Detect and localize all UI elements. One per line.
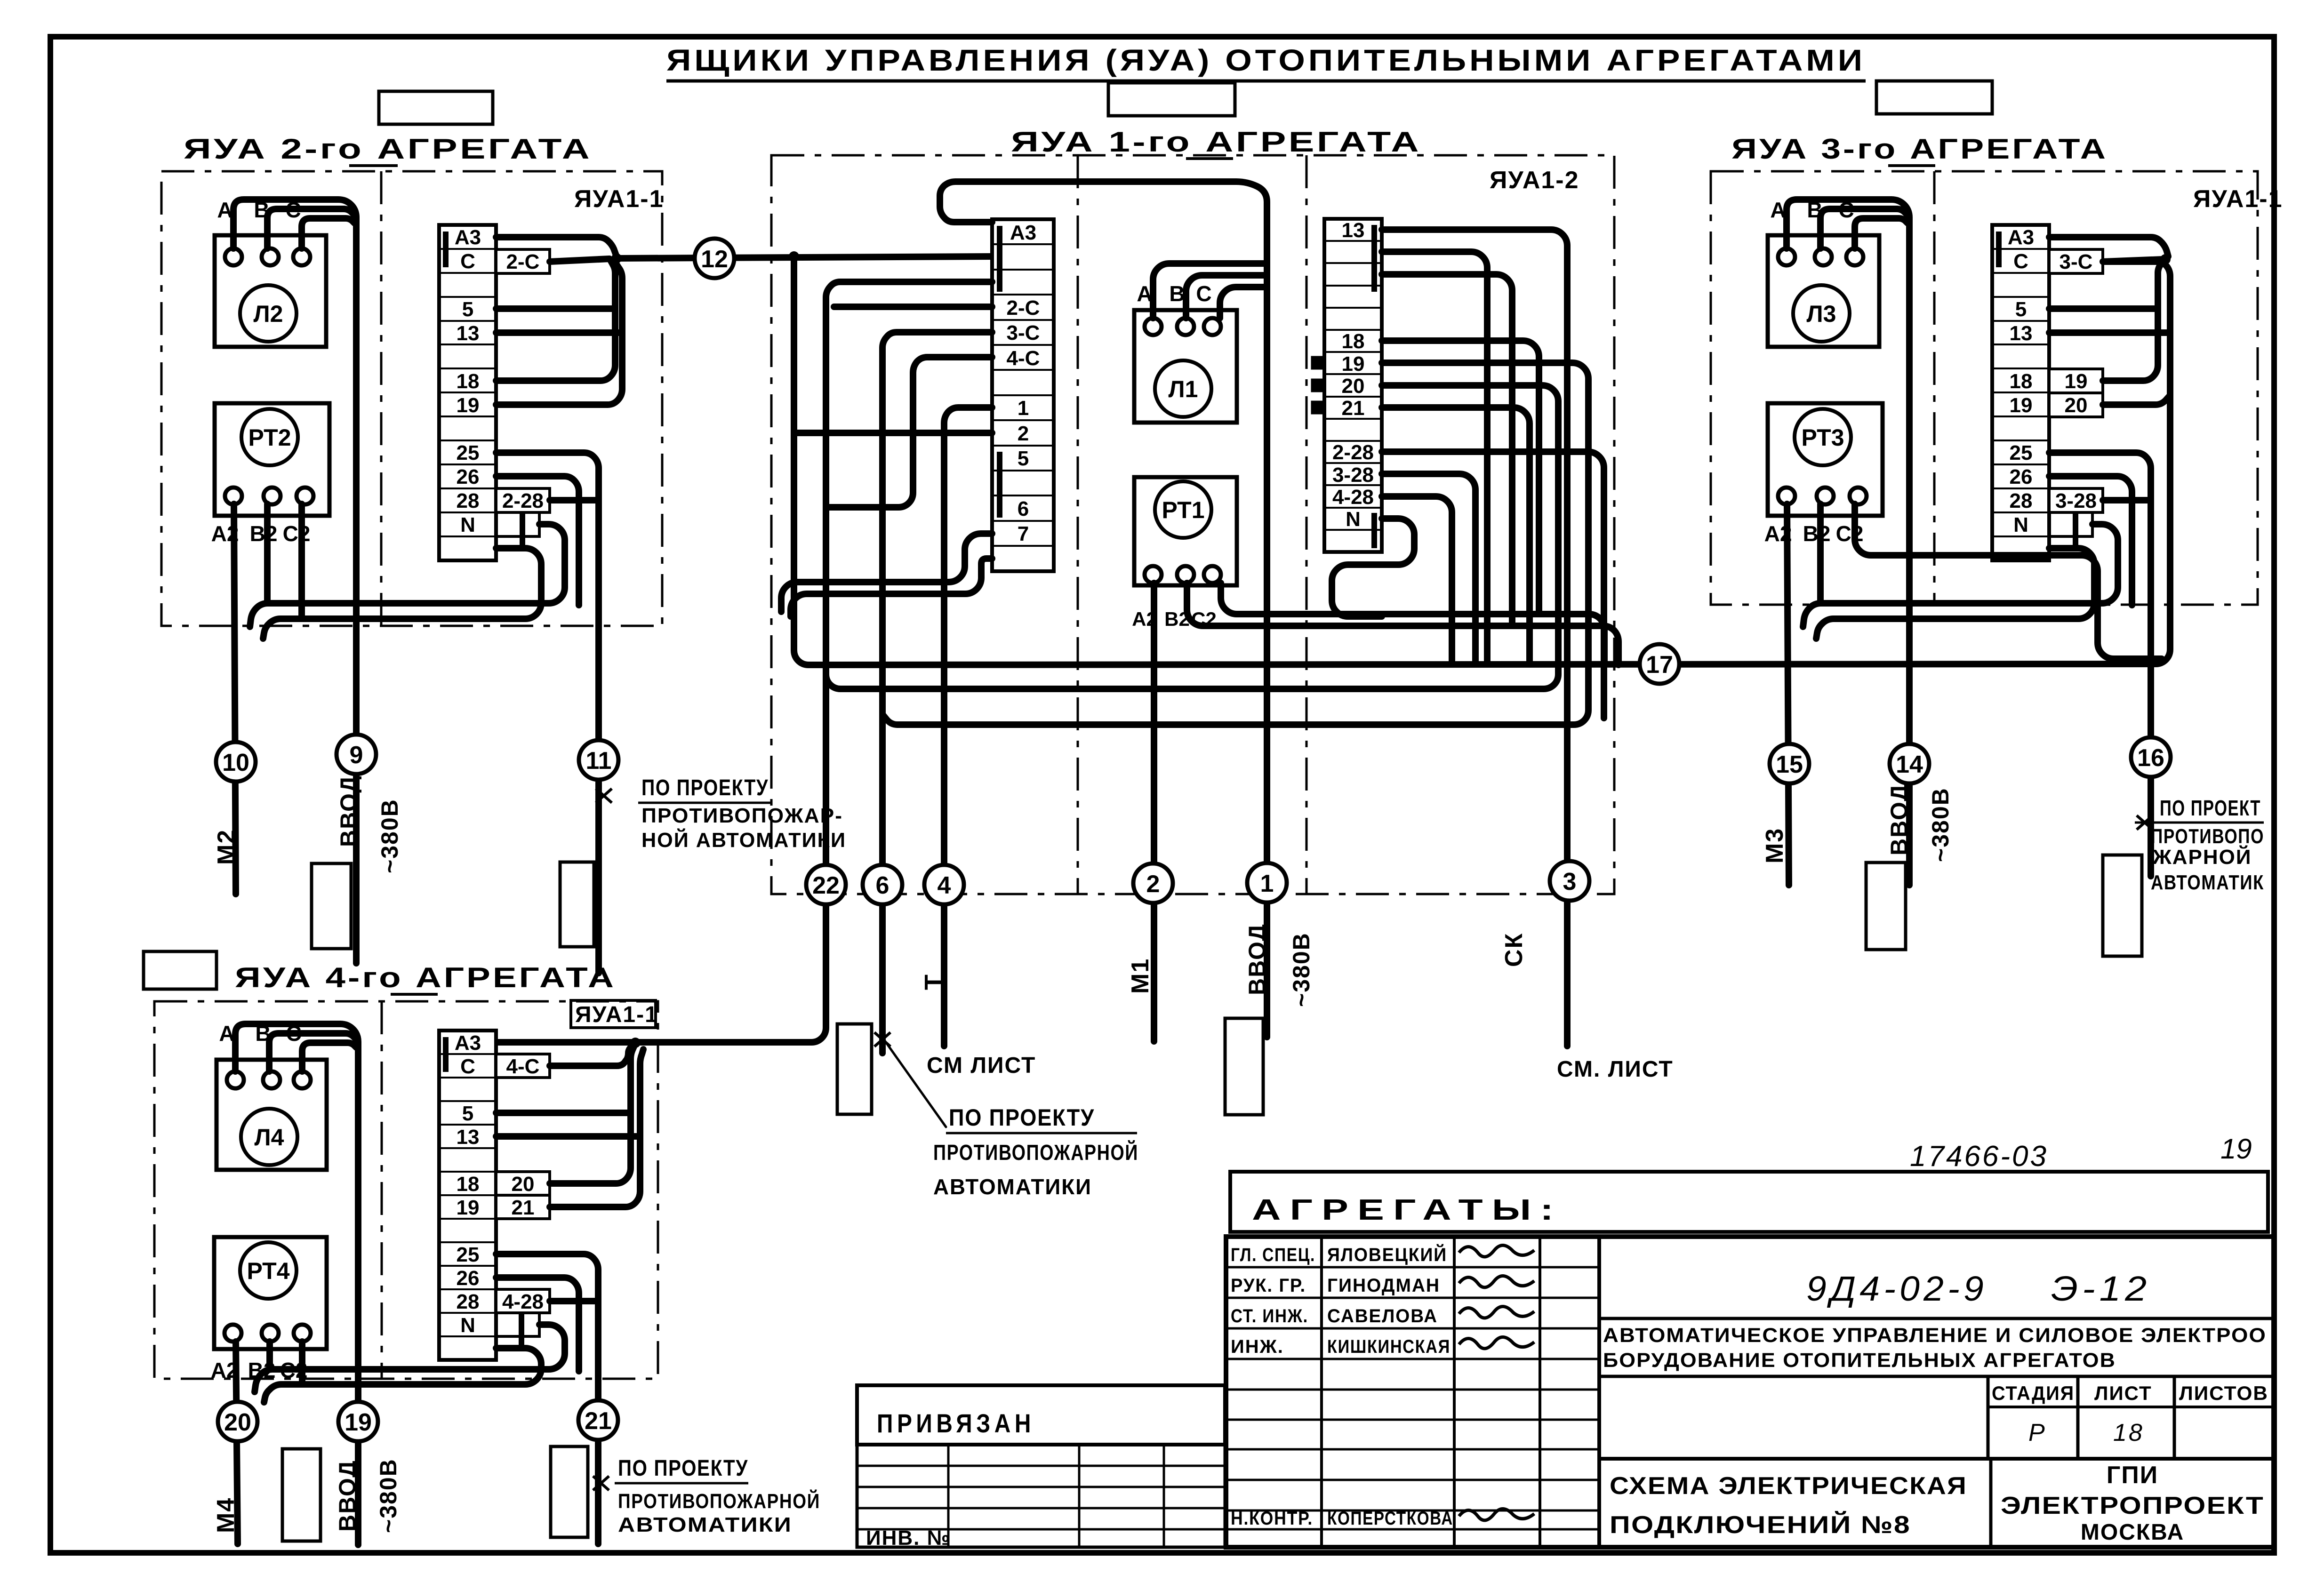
wire С2 of РТ1 to right [1221,583,1604,665]
leader line to note of cable 6 [884,1039,946,1127]
svg-text:25: 25 [457,1243,480,1266]
underline of го in block 4 title [391,993,438,996]
svg-text:26: 26 [2010,465,2033,488]
svg-text:ПРИВЯЗАН: ПРИВЯЗАН [877,1408,1035,1438]
svg-text:9: 9 [350,742,363,769]
wire 3-28 row [1382,474,1475,664]
wire rows 20-5 riser of block 4 [550,1046,634,1183]
wire А2 to М3 cable [1787,504,1789,885]
wire row 5 to riser A [2049,305,2158,312]
jumper box 4-С [496,1054,550,1078]
junction dot at block 3 bus [2160,254,2171,264]
wire bottom row loop of block 2 [263,548,541,639]
wire phase C of block 4 [302,1043,356,1071]
svg-text:14: 14 [1896,751,1923,778]
wire phase A of block 2 and ВВОД drop to circle 9 [233,200,356,963]
jumper box 4-28 [496,1289,550,1313]
cable circle 2 [1133,863,1173,903]
svg-text:19: 19 [2010,394,2033,417]
svg-text:16: 16 [2137,744,2164,772]
svg-text:РТ4: РТ4 [247,1258,289,1284]
svg-text:17466-03: 17466-03 [1910,1140,2048,1173]
svg-text:15: 15 [1776,751,1803,778]
svg-text:ЖАРНОЙ: ЖАРНОЙ [2152,845,2252,869]
wire phase C of block 2 [302,218,354,248]
svg-text:ИНЖ.: ИНЖ. [1231,1336,1284,1357]
cable circle 15 [1770,744,1809,783]
wire В2 join bond of block 4 [266,1342,273,1369]
svg-text:18: 18 [457,370,480,393]
wire А2 to М4 cable [236,1342,238,1544]
wire rows 18-5 riser [496,260,615,381]
underline of го in block 2 title [349,164,398,167]
svg-text:28: 28 [457,489,480,512]
svg-text:РУК. ГР.: РУК. ГР. [1231,1275,1306,1296]
sig row line 6 [1226,1419,1599,1421]
stadia bottom [1599,1457,2274,1461]
svg-text:ВВОД: ВВОД [1244,923,1270,995]
svg-text:11: 11 [586,747,612,775]
svg-text:В2: В2 [250,521,278,546]
svg-text:19: 19 [345,1409,372,1436]
sig row line 2 [1226,1297,1599,1299]
block 2 inner divider [380,171,383,626]
wire 4-С row nested [827,357,992,507]
svg-text:26: 26 [457,465,480,488]
svg-text:18: 18 [1342,330,1365,353]
svg-text:10: 10 [222,749,249,776]
svg-text:М4: М4 [212,1497,240,1533]
svg-text:Л2: Л2 [254,301,283,327]
jumper box 20 of block 3 [2049,393,2103,417]
svg-text:АВТОМАТИК: АВТОМАТИК [2151,871,2264,894]
svg-text:ВВОД: ВВОД [334,1460,361,1532]
svg-text:ПО ПРОЕКТ: ПО ПРОЕКТ [2160,796,2261,820]
svg-text:ПРОТИВОПОЖАРНОЙ: ПРОТИВОПОЖАРНОЙ [618,1489,820,1513]
sig row line 10 [1226,1528,1599,1531]
svg-text:20: 20 [224,1409,251,1436]
underline note cable 6 [946,1132,1137,1135]
svg-text:В2: В2 [1803,521,1831,546]
svg-text:ИНВ. №: ИНВ. № [866,1526,951,1550]
wire bottom row loop of block 3 [1816,548,2094,639]
svg-text:С2: С2 [1836,521,1864,546]
svg-text:5: 5 [462,298,473,321]
block 4 inner divider [381,1001,383,1379]
svg-text:3-28: 3-28 [2055,489,2097,512]
junction dot at block 4 bus [630,1038,641,1048]
ptable col 2 [1078,1445,1081,1547]
cross mark on cable 6 [874,1032,890,1047]
block 3 enclosure dash-dot box [1711,171,2258,605]
svg-text:ПОДКЛЮЧЕНИЙ №8: ПОДКЛЮЧЕНИЙ №8 [1610,1511,1911,1539]
svg-text:А3: А3 [2008,226,2034,249]
terminator rect near cable 9 [312,863,351,949]
svg-text:12: 12 [701,246,728,273]
wire row 5 of block 4 [496,1110,631,1116]
contactor Л4 [216,1021,327,1170]
cable circle 1 [1247,863,1287,903]
jumper box 21 of block 4 [496,1195,550,1219]
contactor Л3 [1768,198,1879,347]
wire 4-28 to cable 21 riser [550,1298,598,1304]
svg-text:ПО ПРОЕКТУ: ПО ПРОЕКТУ [641,775,769,800]
placeholder box above block 3 title [1876,81,1992,114]
wire row 6 bond [781,534,992,612]
svg-text:Р: Р [2028,1419,2045,1446]
junction dot at block 1 tee [789,251,799,262]
signature squiggle 5 [1459,1509,1534,1520]
wire 3-С row to cable 6 [882,332,992,1053]
svg-text:ПРОТИВОПОЖАРНОЙ: ПРОТИВОПОЖАРНОЙ [933,1140,1138,1165]
svg-text:13: 13 [457,1126,480,1149]
svg-text:3-С: 3-С [1007,321,1040,344]
underline of го in block 3 title [1888,164,1935,167]
wire row 1 to cable 4 [944,407,992,1046]
svg-text:2: 2 [1146,871,1160,898]
svg-text:20: 20 [512,1173,535,1196]
wire 21 row [1382,407,1530,664]
cable circle 22 [806,865,846,904]
svg-text:САВЕЛОВА: САВЕЛОВА [1327,1306,1438,1326]
cable circle 14 [1890,744,1929,783]
svg-text:4-28: 4-28 [1332,486,1374,509]
svg-text:20: 20 [2065,394,2088,417]
block 3 inner divider [1933,171,1936,605]
wire row3 to cable 22 [496,282,992,1042]
wire 4-С to А3 bus [550,1043,635,1066]
svg-text:2-С: 2-С [506,250,540,273]
wire 3-С row join node 17 riser [2103,259,2164,262]
wire 2-28 row [1382,452,1604,718]
box around block 4 ЯУА1-1 label [571,1000,656,1028]
terminal strip ЯУА1-1 of block 2 [439,225,496,560]
horizontal bus 1464 [826,320,1558,689]
cable circle 3 [1550,861,1589,901]
terminal strip ЯУА1-2 [1324,219,1382,552]
sig row line 5 [1226,1389,1599,1391]
svg-text:2-С: 2-С [1007,296,1040,320]
svg-text:4-28: 4-28 [502,1290,544,1313]
svg-text:21: 21 [512,1196,535,1219]
svg-text:В: В [1169,281,1185,306]
signature squiggle 3 [1459,1306,1534,1318]
svg-text:ЛИСТОВ: ЛИСТОВ [2179,1382,2268,1404]
title block outer box [1226,1237,2274,1547]
svg-text:19: 19 [457,394,480,417]
Привязан box [857,1385,1225,1445]
list-listov divider [2173,1376,2176,1459]
signature squiggle 1 [1459,1245,1534,1256]
wire 19 box to riser A [2103,261,2164,381]
line under subject [1599,1375,2274,1378]
svg-text:Э-12: Э-12 [2051,1269,2151,1308]
empty side box at N row of block 3 [2049,512,2092,536]
jumper box 2-28 [496,488,550,512]
terminator rect near cable 11 [560,862,594,947]
cable circle 11 [579,740,618,780]
line under project code [1599,1317,2274,1320]
svg-text:С: С [1196,281,1211,306]
wire phase A of block 3 and ВВОД drop to circle 14 [1787,200,1909,885]
wire phase C of block 3 [1855,218,1907,248]
cross mark on cable 11 [596,789,612,803]
ptable col 3 [1163,1445,1165,1547]
svg-text:5: 5 [462,1102,473,1125]
cable circle 20 [218,1402,257,1441]
tick at А3 row of block 1 strip [997,226,1002,292]
svg-text:С: С [460,1055,475,1078]
wire row2 of ЯУА1-2 [1382,252,1487,664]
svg-text:БОРУДОВАНИЕ ОТОПИТЕЛЬНЫХ АГРЕГ: БОРУДОВАНИЕ ОТОПИТЕЛЬНЫХ АГРЕГАТОВ [1603,1349,2116,1372]
svg-text:РТ1: РТ1 [1162,497,1204,523]
wire row 25 to cable 21 [496,1254,598,1544]
cable circle 10 [216,742,256,782]
empty side box at N row of block 4 [496,1313,539,1336]
svg-text:4-С: 4-С [1007,347,1040,370]
svg-text:ЛИСТ: ЛИСТ [2094,1382,2152,1404]
svg-text:17: 17 [1646,651,1673,679]
svg-text:НОЙ АВТОМАТИКИ: НОЙ АВТОМАТИКИ [641,828,846,852]
block 1 inner divider right [1306,155,1308,894]
svg-text:26: 26 [457,1267,480,1290]
wire N row of block 4 [255,1325,565,1392]
jumper box 3-С [2049,249,2103,273]
branch to С of Л1 [1220,287,1267,318]
svg-text:СХЕМА ЭЛЕКТРИЧЕСКАЯ: СХЕМА ЭЛЕКТРИЧЕСКАЯ [1610,1472,1967,1500]
wire N row of ЯУА1-2 [1332,519,1414,616]
svg-text:13: 13 [1342,219,1365,242]
tick at N row of ЯУА1-2 [1371,513,1377,548]
ptable row 1 [857,1465,1225,1467]
underline note cable 16 [2135,822,2264,824]
stadia box left [1987,1376,1990,1459]
wire row 5 to riser [496,305,615,312]
svg-text:~380В: ~380В [377,799,403,873]
svg-text:ГПИ: ГПИ [2107,1462,2158,1489]
svg-text:Л3: Л3 [1807,301,1836,327]
cable circle 17 [1640,644,1679,684]
wire В2 of РТ1 to right [1187,583,1619,665]
wire 20 box to node 17 riser [2103,395,2170,405]
svg-text:СМ. ЛИСТ: СМ. ЛИСТ [1557,1057,1674,1082]
terminator rect near cable 14 [1866,863,1906,950]
svg-text:25: 25 [457,441,480,464]
block 1 enclosure dash-dot box [771,155,1614,894]
svg-text:28: 28 [2010,489,2033,512]
tick at N row of block 4 strip [519,1306,524,1346]
jumper box 3-28 [2049,488,2103,512]
wire А3 row of block 3 [2049,237,2168,256]
svg-text:РТ2: РТ2 [248,424,291,451]
ptable row 3 [857,1507,1225,1510]
wire row 26 down [2049,476,2132,605]
svg-text:7: 7 [1018,522,1029,545]
svg-text:МОСКВА: МОСКВА [2081,1520,2184,1545]
cross mark on cable 21 [593,1476,609,1490]
contactor Л2 [215,198,326,347]
svg-text:21: 21 [1342,397,1365,420]
wire С2 join bond [298,504,305,619]
horizontal bus 1540 [882,541,1588,725]
tick at 5 row of block 1 strip [997,452,1002,518]
svg-text:19: 19 [1342,352,1365,376]
svg-text:СТАДИЯ: СТАДИЯ [1992,1382,2075,1404]
wire row3 T and horizontal 1464 [834,304,992,310]
wire row 13 to node 17 riser [2049,329,2170,336]
svg-text:М3: М3 [1761,828,1788,863]
svg-text:N: N [460,513,475,536]
wire phase B of block 4 [269,1033,357,1071]
wire В2 of РТ3 join bond [1817,504,1824,603]
svg-text:6: 6 [1018,497,1029,520]
svg-text:А3: А3 [455,226,481,249]
svg-text:ПО ПРОЕКТУ: ПО ПРОЕКТУ [949,1104,1095,1131]
terminator rect near cable 1 [1225,1018,1263,1115]
svg-text:N: N [2013,513,2028,536]
svg-text:ПО ПРОЕКТУ: ПО ПРОЕКТУ [618,1456,748,1481]
svg-text:ЯУА 2-го АГРЕГАТА: ЯУА 2-го АГРЕГАТА [184,133,592,165]
svg-text:С: С [2013,250,2028,273]
svg-text:СМ ЛИСТ: СМ ЛИСТ [927,1053,1036,1078]
svg-text:ГЛ. СПЕЦ.: ГЛ. СПЕЦ. [1231,1245,1315,1265]
branch to А of Л1 [1153,264,1267,318]
wire 19 row [1382,363,1588,541]
wire row 25 to cable 16 [2049,453,2151,876]
contactor Л1 [1134,281,1237,423]
svg-text:5: 5 [2015,298,2027,321]
svg-text:19: 19 [2065,370,2088,393]
svg-text:22: 22 [812,872,840,899]
svg-text:ГИНОДМАН: ГИНОДМАН [1327,1275,1440,1296]
svg-text:ПРОТИВОПОЖАР-: ПРОТИВОПОЖАР- [641,804,843,827]
wire N row of block 3 [1803,524,2118,627]
svg-text:13: 13 [2010,322,2033,345]
wire А2 of РТ1 to М1 [1151,583,1157,1041]
wire 2-С to node 12 [550,259,609,262]
block 4 enclosure dash-dot box [154,1001,658,1379]
wire А3 row to bus [496,237,617,256]
wire row 25 to cable 11 [496,453,599,973]
underline of го in block 1 title [1186,157,1233,160]
svg-text:ВВОД: ВВОД [1886,783,1912,855]
svg-text:ЯУА 1-го АГРЕГАТА: ЯУА 1-го АГРЕГАТА [1011,126,1421,158]
underline note cable 21 [615,1482,748,1485]
svg-text:13: 13 [457,322,480,345]
thermal relay РТ1 [1132,477,1237,630]
wire row 26 down [496,1278,579,1371]
cross mark on cable 16 [2137,815,2153,830]
terminator rect near cable 6 [837,1024,872,1114]
wire phase B of block 2 [267,209,355,248]
cable circle 4 [924,865,964,904]
svg-text:N: N [460,1314,475,1337]
sig col 1 [1320,1237,1323,1547]
svg-text:ПРОТИВОПО: ПРОТИВОПО [2151,825,2264,848]
wire А2 to М2 cable [234,504,236,894]
terminal strip ЯУА1-1 of block 4 [439,1031,496,1360]
junction dot at node 12 bus [611,253,622,264]
sig row line 3 [1226,1327,1599,1330]
wire 18 row [1382,341,1539,614]
terminal strip ЯУА1-1 of block 3 [1992,225,2049,560]
svg-text:1: 1 [1018,397,1029,420]
svg-text:3-28: 3-28 [1332,463,1374,487]
thermal relay РТ4 [211,1237,327,1382]
ptable col 1 [947,1445,950,1547]
wire С2 join bond of block 4 [299,1342,305,1384]
tab square 1 on ЯУА1-2 [1312,357,1324,368]
svg-text:4: 4 [938,872,951,899]
svg-text:ЯУА1-2: ЯУА1-2 [1490,167,1579,194]
wire С2 of РТ3 to right [1855,504,2162,659]
jumper box 19 of block 3 [2049,369,2103,393]
svg-text:2-28: 2-28 [1332,441,1374,464]
cable circle 12 [695,239,734,278]
svg-text:ВВОД: ВВОД [336,775,362,847]
terminator rect near cable 21 [551,1446,588,1537]
svg-text:А3: А3 [1010,221,1036,244]
terminator rect near cable 16 [2103,855,2142,956]
svg-text:4-С: 4-С [506,1055,540,1078]
svg-text:ЯУА1-1: ЯУА1-1 [574,185,664,213]
cable circle 21 [578,1400,618,1440]
signature squiggle 4 [1459,1337,1534,1348]
sig col 3 [1539,1237,1541,1547]
tab square 3 on ЯУА1-2 [1312,402,1324,413]
svg-text:ЯЛОВЕЦКИЙ: ЯЛОВЕЦКИЙ [1327,1244,1447,1265]
svg-text:ЯЩИКИ УПРАВЛЕНИЯ (ЯУА) ОТОПИ: ЯЩИКИ УПРАВЛЕНИЯ (ЯУА) ОТОПИТЕЛЬНЫМИ АГР… [666,43,1866,77]
sig row line 8 [1226,1479,1599,1481]
svg-text:АГРЕГАТЫ:: АГРЕГАТЫ: [1252,1194,1563,1226]
wire rows 21-13 riser of block 4 [550,1049,643,1207]
cable circle 9 [337,735,376,774]
placeholder box above block 2 title [379,91,493,124]
svg-text:19: 19 [457,1196,480,1219]
svg-text:Т: Т [920,974,948,990]
svg-text:КОПЕРСТКОВА: КОПЕРСТКОВА [1327,1508,1453,1529]
placeholder box left of block 4 title [144,951,216,989]
svg-text:3-С: 3-С [2060,250,2093,273]
svg-text:6: 6 [876,872,890,899]
wire bottom row loop of block 4 [264,1348,541,1402]
svg-text:2: 2 [1018,422,1029,445]
sig row line 9 [1226,1510,1599,1512]
title underline [666,80,1866,83]
wire phase A of block 4 and ВВОД drop to circle 19 [235,1024,358,1545]
svg-text:1: 1 [1260,870,1274,897]
stadia-list divider [2076,1376,2080,1459]
wire ВВОД feed loop of block 1 [940,182,1267,1037]
wire В2 join bond [264,504,271,603]
svg-text:18: 18 [2010,370,2033,393]
sig col 2 [1453,1237,1456,1547]
tick at А3 row of block 2 strip [443,232,449,267]
branch to В of Л1 [1186,275,1267,318]
svg-text:РТ3: РТ3 [1801,424,1844,451]
jumper box 20 of block 4 [496,1172,550,1196]
sig col 4 [1597,1237,1601,1547]
svg-text:СК: СК [1500,933,1528,967]
svg-text:Л1: Л1 [1169,376,1198,402]
wire N row of block 2 [250,524,565,627]
svg-text:~380В: ~380В [375,1458,401,1533]
empty side box at N row of block 2 [496,512,539,536]
wire rows 19-13 riser [496,262,622,405]
svg-text:ЯУА 4-го АГРЕГАТА: ЯУА 4-го АГРЕГАТА [235,962,616,993]
thermal relay РТ3 [1764,403,1883,546]
wire 3-28 to cable 16 riser [2103,497,2151,503]
